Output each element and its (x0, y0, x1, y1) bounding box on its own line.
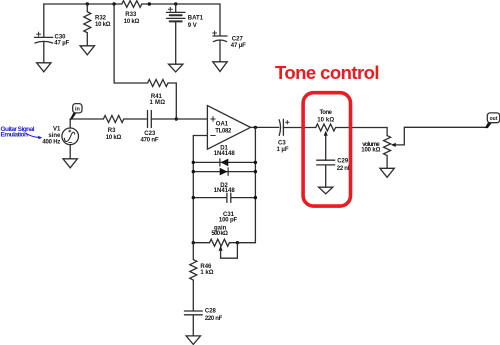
svg-text:C28: C28 (205, 308, 217, 314)
svg-text:in: in (75, 107, 81, 113)
wire op-amp output (251, 126, 279, 128)
node R41/C23 junction (175, 117, 178, 120)
node output junction (254, 126, 257, 129)
capacitor C28 220nF (184, 308, 222, 336)
svg-text:C29: C29 (337, 159, 349, 165)
annotation red box (tone control) (303, 93, 350, 206)
svg-text:47 µF: 47 µF (54, 40, 69, 46)
annotation: guitar signal emulation (blue) (1, 126, 43, 139)
capacitor C27 47uF (213, 4, 247, 62)
svg-text:9 V: 9 V (188, 23, 197, 29)
svg-text:Tone: Tone (320, 110, 333, 116)
svg-text:TL082: TL082 (215, 128, 232, 134)
wire C31 rail (193, 197, 255, 199)
port out (485, 113, 500, 128)
ground (C27) (213, 62, 227, 72)
svg-text:Tone control: Tone control (275, 62, 380, 83)
svg-text:R3: R3 (108, 128, 116, 134)
ground (volume) (380, 168, 394, 177)
svg-text:C23: C23 (144, 131, 156, 137)
op-amp OA1 TL082 (207, 106, 250, 150)
capacitor C31 100pF (219, 193, 238, 223)
node top-rail battery tap (174, 2, 177, 5)
capacitor C29 22nF (317, 159, 352, 188)
wire gain-pot rail (193, 242, 255, 244)
node D1 rail left (192, 161, 195, 164)
node D1 rail right (254, 161, 257, 164)
svg-text:R33: R33 (125, 12, 137, 18)
svg-text:1 µF: 1 µF (277, 147, 289, 153)
svg-text:R41: R41 (151, 94, 163, 100)
svg-text:C3: C3 (278, 140, 286, 146)
voltage source V1 sine 400Hz (42, 119, 78, 159)
wire R41 to input node (168, 83, 176, 119)
svg-text:1N4148: 1N4148 (214, 151, 236, 157)
wire input net (70, 118, 207, 120)
resistor R33 10k (122, 1, 142, 25)
svg-text:100 pF: 100 pF (219, 218, 238, 224)
svg-text:out: out (490, 116, 498, 122)
svg-text:C27: C27 (232, 36, 244, 42)
svg-text:OA1: OA1 (216, 122, 229, 128)
node gain rail left (192, 241, 195, 244)
svg-text:500 kΩ: 500 kΩ (211, 231, 228, 237)
wire top supply rail (44, 3, 220, 5)
ground (V1) (63, 159, 77, 168)
svg-text:100 kΩ: 100 kΩ (361, 148, 380, 154)
ground (C28) (186, 336, 200, 345)
node top-rail segment joint (148, 2, 151, 5)
battery BAT1 9V (167, 4, 204, 64)
capacitor C23 470nF (141, 111, 159, 144)
potentiometer volume 100k (361, 127, 485, 168)
ground (C30) (37, 63, 51, 72)
svg-text:220 nF: 220 nF (205, 316, 223, 322)
svg-text:R32: R32 (95, 16, 107, 22)
capacitor C3 1uF (277, 119, 290, 152)
svg-text:10 kΩ: 10 kΩ (124, 19, 140, 25)
wire D2 rail (193, 171, 255, 173)
svg-text:47 µF: 47 µF (231, 43, 246, 49)
wire bias rail down to R41 (114, 4, 148, 83)
wire inverting input to feedback left rail (193, 136, 207, 243)
svg-text:10 kΩ: 10 kΩ (95, 22, 111, 28)
svg-text:400 Hz: 400 Hz (42, 139, 60, 145)
wire feedback right rail (254, 127, 256, 242)
node D2 rail right (254, 170, 257, 173)
node C31 rail right (254, 196, 257, 199)
wire D1 rail (193, 161, 255, 163)
potentiometer gain 500k (210, 225, 238, 258)
svg-text:1 kΩ: 1 kΩ (200, 270, 213, 276)
ground (C29) (319, 187, 333, 194)
svg-text:1N4148: 1N4148 (214, 188, 236, 194)
svg-text:470 nF: 470 nF (141, 137, 159, 143)
svg-text:V1: V1 (53, 127, 61, 133)
svg-text:BAT1: BAT1 (188, 16, 204, 22)
wire output to tone pot (283, 127, 315, 129)
svg-text:10 kΩ: 10 kΩ (106, 135, 122, 141)
svg-text:sine: sine (48, 133, 61, 139)
svg-text:Emulation: Emulation (1, 132, 29, 139)
resistor R3 10k (103, 116, 123, 141)
node gain wiper tap (236, 241, 239, 244)
resistor R46 1k (190, 243, 214, 311)
ground (BAT1) (169, 64, 183, 72)
diode D1 1N4148 (214, 146, 236, 167)
node D2 rail left (192, 170, 195, 173)
svg-text:1 MΩ: 1 MΩ (150, 100, 166, 106)
diode D2 1N4148 (214, 168, 236, 194)
wire tone to volume pot (336, 128, 387, 136)
svg-text:10 kΩ: 10 kΩ (317, 117, 334, 123)
node top-rail bias tap (112, 2, 115, 5)
ground (R32) (80, 46, 94, 55)
node C31 rail left (192, 196, 195, 199)
node top-rail R32 tap (86, 2, 89, 5)
potentiometer Tone 10k (316, 110, 336, 160)
resistor R41 1M (148, 80, 168, 107)
port in (70, 104, 82, 120)
capacitor C30 47uF (35, 4, 70, 63)
resistor R32 10k (84, 4, 111, 46)
